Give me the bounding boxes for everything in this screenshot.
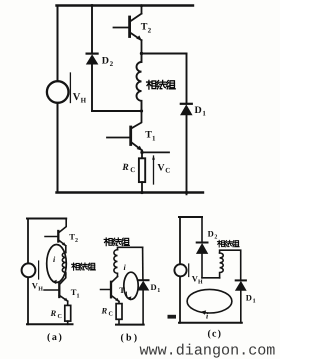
(c) label winding [217,240,239,247]
(b) wire top [118,247,143,249]
diode D2 [87,52,98,54]
(a) transistor T2 [59,219,66,233]
svg-text:V: V [73,92,81,103]
node winding bottom [140,109,143,112]
svg-text:2: 2 [214,235,217,241]
svg-text:1: 1 [253,299,256,305]
svg-text:R: R [50,308,57,318]
svg-text:D: D [246,293,252,303]
(c) inductor winding [220,253,224,278]
inductor phase winding [136,54,141,112]
wire D2 branch [91,6,93,54]
(a) inductor winding [62,253,66,275]
(c) current loop [187,289,232,313]
transistor T2 [128,17,131,37]
svg-text:C: C [58,314,62,320]
svg-text:2: 2 [110,60,114,68]
node T1 emitter [140,151,143,154]
svg-text:D: D [195,105,202,116]
wire D1 branch [186,54,188,104]
node winding top [140,52,143,55]
svg-text:1: 1 [157,288,160,294]
(b) diode D1 [138,279,149,281]
svg-text:2: 2 [148,27,152,35]
(b) transistor T1 [111,277,117,283]
resistor RC [141,152,143,158]
svg-text:2: 2 [75,238,78,244]
(c) wire winding top to right rail [220,250,241,280]
(b) wire bottom rail [116,324,144,326]
svg-text:H: H [38,287,43,293]
label winding main [147,80,176,89]
(a) current loop [47,245,67,283]
(a) label winding [72,263,96,270]
(b) current loop [124,272,138,299]
svg-text:H: H [198,280,203,286]
svg-text:R: R [121,163,128,173]
wire top rail [57,4,194,6]
svg-text:i: i [53,255,56,264]
svg-text:1: 1 [152,135,156,143]
svg-text:H: H [81,97,87,105]
(c) source VH [174,264,186,276]
svg-text:C: C [109,312,113,318]
wire emitter stub [142,151,169,153]
wire winding top to D1 branch [142,53,187,55]
node T2 collector [140,4,143,7]
svg-text:C: C [165,167,170,175]
transistor T1 [131,111,142,129]
svg-text:i: i [124,263,127,272]
(b) inductor winding [114,250,118,277]
source VH [47,81,69,103]
svg-text:1: 1 [125,291,128,297]
node D1 bottom [185,191,188,194]
(b) resistor RC [116,304,122,320]
(c) diode D1 [236,279,246,281]
node RC bottom [140,191,143,194]
(a) wire top rail [27,218,66,220]
(a) source VH [22,263,36,277]
wire bottom rail [57,191,204,193]
(c) diode D2 branch [201,217,203,242]
(c) wire top rail [179,216,202,218]
svg-text:1: 1 [202,110,206,118]
wire left rail [57,6,59,193]
svg-text:V: V [157,163,165,174]
(a) wire bottom rail [27,323,73,325]
(c) wire left rail [179,217,181,323]
(b) wire right rail [142,247,144,280]
svg-text:D: D [208,229,214,239]
(a) wire left rail [27,219,29,325]
svg-text:1: 1 [77,294,80,300]
(c) wire bottom rail [179,322,242,324]
diode D1 [181,103,192,105]
(b) label winding [104,238,129,246]
(c) wire to winding bottom [202,277,220,279]
svg-text:www.diangon.com: www.diangon.com [140,342,276,359]
svg-text:(c): (c) [208,329,223,340]
svg-text:R: R [101,306,108,316]
svg-text:D: D [102,56,109,67]
node D2 top [91,4,94,7]
wire D2 to winding bottom [92,110,142,112]
svg-text:D: D [151,282,157,292]
svg-text:(b): (b) [121,333,140,344]
stray scan mark [168,315,177,319]
svg-text:(a): (a) [47,332,63,343]
svg-text:C: C [130,166,135,174]
(a) transistor T1 [60,274,66,284]
(a) resistor RC [65,305,71,321]
VC marker [153,156,155,184]
